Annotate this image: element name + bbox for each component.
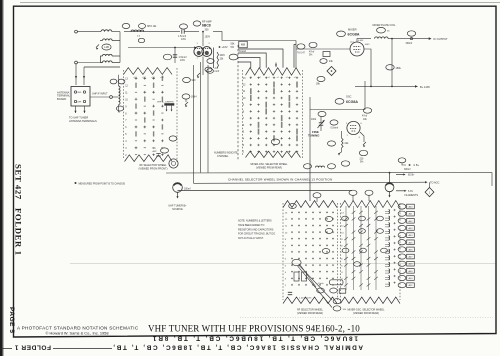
svg-text:0.5mmf: 0.5mmf: [331, 128, 339, 130]
svg-text:NOT ACTUALLY EXIST.: NOT ACTUALLY EXIST.: [238, 237, 264, 240]
svg-text:15k: 15k: [220, 58, 225, 60]
svg-text:300mf: 300mf: [404, 169, 411, 171]
svg-text:150V: 150V: [205, 36, 211, 39]
oval inside wheel lower: [169, 136, 177, 141]
svg-text:47mf: 47mf: [362, 116, 367, 118]
oval inside wheel2: [271, 139, 279, 145]
osc interconnect wires: [309, 97, 311, 160]
svg-text:11: 11: [341, 226, 344, 228]
svg-text:18UA6C, CB, T, TB, 18UB6C, CB,: 18UA6C, CB, T, TB, 18UB6C, CB, T, TB, 8R…: [151, 335, 358, 342]
bottom cluster ovals: [317, 288, 325, 293]
svg-text:NO.: NO.: [153, 148, 157, 150]
svg-text:6CG8A: 6CG8A: [348, 32, 360, 36]
row of parts above lower wheel: [304, 164, 312, 169]
oval osc top right: [363, 108, 371, 113]
svg-text:12: 12: [243, 85, 246, 87]
IF OUTPUT arrow: [429, 37, 432, 40]
svg-text:MIXER: MIXER: [348, 28, 357, 32]
svg-text:10k: 10k: [343, 309, 347, 311]
svg-text:220: 220: [360, 159, 365, 161]
svg-text:mmf: mmf: [215, 70, 220, 73]
svg-text:36: 36: [387, 31, 390, 33]
wheel contact matrix: [135, 77, 138, 80]
svg-text:43k: 43k: [329, 61, 334, 63]
coil L2 choke: [131, 30, 144, 32]
wire plate up: [202, 32, 204, 46]
svg-text:5: 5: [125, 134, 127, 136]
svg-text:82 B+: 82 B+: [408, 174, 415, 177]
svg-text:M8: M8: [241, 43, 245, 47]
ground at L1B: [96, 45, 99, 48]
svg-text:CHANNEL: CHANNEL: [217, 155, 229, 158]
svg-text:1.5mmf 10%: 1.5mmf 10%: [299, 298, 311, 300]
oval small left: [138, 38, 144, 42]
oscillator switch verticals: [345, 206, 347, 290]
long bus wire 1: [166, 173, 492, 187]
svg-text:6: 6: [361, 123, 363, 125]
bullet +10V: [219, 46, 221, 48]
tube V2B oscillator: [347, 121, 360, 134]
svg-text:2: 2: [125, 155, 127, 157]
wire coupling verticals: [101, 56, 103, 63]
svg-text:9: 9: [285, 239, 287, 241]
svg-text:3: 3: [243, 145, 245, 147]
svg-text:100V: 100V: [220, 55, 226, 57]
svg-text:180k: 180k: [396, 67, 402, 70]
svg-text:100V: 100V: [365, 44, 371, 46]
svg-text:+C: +C: [277, 77, 280, 79]
svg-text:RF SELECTOR WHEEL: RF SELECTOR WHEEL: [297, 309, 324, 312]
svg-text:NPO 10k: NPO 10k: [147, 26, 157, 28]
oval R resistor 39k: [317, 76, 325, 81]
UHF B+ test socket: [169, 159, 178, 168]
svg-text:RESISTORS AND CAPACITORS: RESISTORS AND CAPACITORS: [238, 228, 274, 231]
faint top page edge line: [20, 2, 500, 4]
svg-text:+C: +C: [259, 77, 262, 79]
svg-text:(VIEWED FROM REAR): (VIEWED FROM REAR): [256, 166, 282, 169]
oscillator channel coils: [389, 210, 390, 214]
svg-text:FILAMENTS: FILAMENTS: [405, 194, 419, 197]
svg-text:5%: 5%: [360, 162, 363, 164]
svg-text:MIXER-OSC. SELECTOR WHEEL: MIXER-OSC. SELECTOR WHEEL: [251, 163, 289, 166]
svg-text:13: 13: [243, 78, 246, 80]
wire plate supply vertical: [391, 39, 393, 87]
svg-text:FOLDER 1: FOLDER 1: [14, 344, 51, 351]
svg-text:5%: 5%: [309, 55, 312, 57]
svg-text:10: 10: [125, 99, 128, 101]
svg-text:A46: A46: [409, 248, 414, 251]
svg-text:4: 4: [243, 138, 245, 140]
svg-text:UHF TUNER B+: UHF TUNER B+: [168, 205, 187, 208]
oval R25 180k: [386, 65, 394, 70]
svg-text:10%: 10%: [180, 59, 186, 62]
oval C24: [407, 31, 415, 36]
svg-text:300mf: 300mf: [406, 42, 413, 45]
svg-text:MIXER PLATE COIL: MIXER PLATE COIL: [373, 24, 396, 27]
svg-text:5: 5: [243, 132, 245, 134]
svg-text:7: 7: [285, 252, 287, 254]
svg-text:10: 10: [243, 98, 246, 100]
svg-text:9: 9: [243, 105, 245, 107]
shield dashed line between sections: [237, 45, 239, 160]
box M2: [323, 52, 330, 57]
oval C17 label: [180, 24, 188, 29]
coil L1A primary: [101, 30, 112, 32]
B plus boost socket: [385, 183, 394, 192]
oval C14 with label: [122, 23, 130, 28]
svg-text:3: 3: [285, 279, 287, 281]
oval C28 220: [359, 150, 367, 155]
wire antenna bottom lead: [75, 61, 78, 64]
svg-text:A42: A42: [409, 220, 414, 223]
bottom cluster boxes: [294, 272, 299, 281]
svg-text:A41: A41: [409, 213, 414, 216]
oval L12: [377, 27, 386, 33]
svg-text:7A 0.47: 7A 0.47: [297, 52, 306, 55]
svg-text:TUNING: TUNING: [308, 134, 320, 138]
oval labels near L3: [110, 79, 117, 84]
svg-text:A43: A43: [409, 227, 414, 230]
svg-text:6: 6: [285, 259, 287, 261]
svg-text:IF OUTPUT: IF OUTPUT: [434, 37, 449, 41]
svg-text:11: 11: [243, 91, 246, 93]
svg-text:NOTE: NUMBERS & LETTERS: NOTE: NUMBERS & LETTERS: [238, 220, 272, 223]
svg-text:+C: +C: [268, 77, 271, 79]
svg-text:VHF TUNER WITH UHF PROVISIONS: VHF TUNER WITH UHF PROVISIONS 94E160-2, …: [148, 324, 360, 334]
svg-text:2: 2: [285, 285, 287, 287]
svg-text:3: 3: [359, 137, 361, 139]
antenna terminal board: [71, 87, 90, 107]
svg-text:A40: A40: [409, 206, 414, 209]
wire mixer cathode right: [364, 49, 371, 86]
oval grid resistor: [318, 111, 326, 116]
svg-text:9: 9: [125, 106, 127, 108]
lower RF wheel dots: [291, 211, 293, 213]
UHF B+ source cap socket: [173, 183, 183, 193]
wire mixer plate up to coil: [357, 39, 371, 42]
svg-text:SET 427 FOLDER 1: SET 427 FOLDER 1: [14, 164, 24, 256]
svg-text:6.3V: 6.3V: [408, 190, 413, 193]
svg-text:1N64: 1N64: [191, 97, 197, 99]
svg-text:100k: 100k: [311, 119, 317, 121]
svg-text:TO AGC: TO AGC: [430, 182, 440, 185]
svg-text:940: 940: [192, 79, 197, 82]
svg-text:8: 8: [125, 113, 127, 115]
svg-text:VHF B+ JUMPER: VHF B+ JUMPER: [157, 101, 174, 103]
svg-text:0.001: 0.001: [358, 40, 364, 42]
svg-text:(VIEWED FROM FRONT): (VIEWED FROM FRONT): [139, 168, 168, 171]
svg-text:10: 10: [341, 232, 344, 234]
oval C21 cluster: [297, 44, 305, 49]
svg-text:10%: 10%: [181, 38, 187, 41]
svg-text:① B+: ① B+: [413, 163, 420, 167]
svg-text:HAVE BEEN ADDED TO: HAVE BEEN ADDED TO: [238, 224, 264, 227]
RF selector wheel outline: [124, 68, 173, 75]
transformer label oval L1B: [102, 44, 111, 50]
svg-text:BOARD: BOARD: [57, 97, 66, 101]
svg-text:1: 1: [429, 191, 431, 195]
svg-text:A44: A44: [409, 234, 414, 237]
test point diamond A: [327, 67, 336, 76]
svg-text:39k: 39k: [316, 83, 321, 86]
faint horizontal fold line: [70, 263, 496, 265]
svg-text:MIXER-OSC. SELECTOR WHEEL: MIXER-OSC. SELECTOR WHEEL: [348, 309, 386, 312]
svg-text:11: 11: [285, 226, 288, 228]
faint dotted rule: [240, 317, 493, 319]
svg-text:6CG8A: 6CG8A: [346, 100, 358, 104]
switch contact slashes: [344, 217, 348, 220]
tube lower components: [207, 59, 214, 64]
svg-text:A49: A49: [409, 270, 414, 273]
coil L3 uhf input: [119, 86, 121, 105]
svg-text:VHF: VHF: [77, 92, 82, 94]
svg-text:A50: A50: [409, 277, 414, 280]
svg-text:0.5: 0.5: [137, 36, 141, 38]
svg-text:ADMIRAL CHASSIS 18A6C, CB, T,: ADMIRAL CHASSIS 18A6C, CB, T, TB, 18B6C,…: [112, 344, 363, 351]
svg-text:+C: +C: [286, 77, 289, 79]
page left fold edge: [0, 0, 3, 356]
wire L3 top: [118, 75, 120, 86]
svg-text:TO UHF TUNER: TO UHF TUNER: [69, 116, 88, 120]
osc cathode ground: [360, 132, 364, 142]
svg-text:6: 6: [125, 127, 127, 129]
tube V2A mixer: [350, 42, 364, 56]
oval feeds above sawtooth: [313, 193, 321, 198]
wire coil right bus: [119, 32, 121, 63]
coil L1B secondary: [103, 39, 113, 41]
wire down to antenna board left: [75, 64, 77, 85]
svg-text:2: 2: [341, 285, 343, 287]
diamond ref 1: [425, 188, 434, 197]
lower mixer-osc wheel outline: [341, 201, 401, 208]
svg-text:MEASURED FROM POINT B TO CHA: MEASURED FROM POINT B TO CHASSIS: [79, 182, 126, 185]
wire grid feed: [120, 31, 147, 33]
svg-text:© Howard W. Sams & Co., Inc. 1: © Howard W. Sams & Co., Inc. 1958: [46, 331, 109, 336]
svg-text:2: 2: [243, 152, 245, 154]
svg-text:12: 12: [125, 85, 128, 87]
coil L1D: [103, 61, 113, 63]
svg-text:ANTENNA TERMINALS: ANTENNA TERMINALS: [69, 119, 97, 123]
svg-text:7: 7: [243, 118, 245, 120]
filaments arrow: [396, 190, 405, 192]
svg-text:300: 300: [205, 29, 210, 32]
svg-text:+C: +C: [250, 77, 253, 79]
fold rule lines: [0, 348, 112, 350]
wire antenna top lead: [75, 30, 78, 33]
rotor oval with fan: [292, 259, 301, 265]
scattered ovals in osc wheel: [359, 216, 366, 221]
wheel2 top feed wires: [238, 62, 251, 68]
svg-text:13: 13: [285, 213, 288, 215]
svg-text:6: 6: [243, 125, 245, 127]
svg-text:SOURCE: SOURCE: [172, 208, 183, 211]
svg-text:8: 8: [285, 246, 287, 248]
oval R22 and resistor 22k: [328, 141, 336, 146]
vertical wires to lower bus: [193, 65, 195, 183]
oval with ground: [182, 94, 190, 99]
svg-text:9: 9: [341, 239, 343, 241]
svg-text:13: 13: [341, 213, 344, 215]
svg-text:UHF: UHF: [77, 102, 82, 104]
note measured from point: [75, 182, 77, 184]
ovals inside lower RF wheel: [325, 217, 333, 222]
arrow 82 B+: [396, 174, 404, 176]
svg-text:7: 7: [125, 120, 127, 122]
wire cathode bus: [128, 47, 196, 49]
svg-text:10k: 10k: [363, 119, 368, 121]
wire down to antenna board right: [83, 67, 85, 85]
svg-text:4: 4: [285, 272, 287, 274]
svg-text:6: 6: [341, 259, 343, 261]
left bottom ovals pair: [333, 299, 341, 304]
mixer-osc wheel outline: [246, 68, 301, 76]
svg-text:+10V: +10V: [222, 45, 228, 49]
svg-text:5: 5: [341, 265, 343, 267]
oval on lower wheel top edge: [289, 204, 297, 209]
right side arrows: [398, 158, 406, 163]
oval cathode components: [163, 54, 171, 60]
svg-text:11: 11: [125, 92, 128, 94]
svg-text:22k: 22k: [345, 142, 350, 145]
svg-text:ANT: ANT: [153, 150, 158, 153]
svg-text:6BC8: 6BC8: [202, 24, 211, 28]
svg-text:PAGE 5: PAGE 5: [8, 307, 15, 334]
svg-text:5%: 5%: [231, 46, 235, 49]
svg-text:10: 10: [285, 232, 288, 234]
long bus wire 2: [194, 182, 427, 183]
svg-text:2: 2: [209, 43, 211, 45]
oval L7: [229, 54, 238, 60]
svg-text:UHF IF INPUT: UHF IF INPUT: [92, 92, 108, 95]
fine tuning trimmer: [319, 123, 323, 125]
wire top bus to mixer: [213, 32, 296, 41]
wheel contact matrix 2: [250, 77, 252, 79]
coil L12: [375, 37, 389, 39]
svg-text:(VIEWED FROM REAR): (VIEWED FROM REAR): [353, 312, 379, 315]
svg-text:4: 4: [341, 272, 343, 274]
oval R24: [341, 161, 349, 166]
svg-text:3: 3: [125, 148, 127, 150]
svg-text:A52: A52: [409, 284, 414, 287]
svg-text:12: 12: [285, 219, 288, 221]
svg-text:A47: A47: [409, 256, 414, 259]
resistor 15k vertical: [217, 52, 219, 68]
svg-text:FOR CIRCUIT TRACING, BUT DO: FOR CIRCUIT TRACING, BUT DO: [238, 233, 275, 236]
svg-text:8: 8: [243, 111, 245, 113]
svg-text:4: 4: [125, 141, 127, 143]
svg-text:B+ 140V: B+ 140V: [420, 85, 430, 89]
svg-text:OSC: OSC: [346, 96, 352, 99]
wire mixer grid to wheel: [296, 48, 350, 50]
tube V1 RF amp (dual triode): [194, 47, 204, 57]
wire B+ 140V arrow: [355, 85, 418, 87]
wire L3 bottom: [119, 105, 121, 112]
svg-text:(VIEWED FROM REAR): (VIEWED FROM REAR): [297, 312, 323, 315]
channel strip stack ovals and boxes: [398, 204, 406, 209]
svg-text:A45: A45: [409, 241, 414, 244]
svg-text:NUMBERS INDICATE: NUMBERS INDICATE: [214, 152, 238, 155]
svg-text:3-band: 3-band: [239, 50, 247, 53]
svg-text:47mf: 47mf: [309, 52, 314, 54]
svg-text:CHANNEL SELECTOR WHEEL SHOWN: CHANNEL SELECTOR WHEEL SHOWN IN CHANNEL …: [228, 178, 332, 182]
oval R 940: [183, 77, 191, 82]
svg-text:1: 1: [347, 135, 349, 137]
svg-text:1: 1: [197, 43, 199, 45]
capacitor C17 series: [182, 29, 184, 33]
box M8 3-band: [239, 41, 248, 48]
coil L1C: [103, 54, 113, 56]
label RF AMP 6BC8: [193, 21, 201, 26]
oval C30: [330, 120, 338, 125]
svg-text:13: 13: [125, 79, 128, 81]
wire uhf if input: [90, 96, 110, 98]
svg-text:7: 7: [197, 58, 199, 60]
svg-text:5: 5: [285, 265, 287, 267]
svg-text:4.5mh: 4.5mh: [318, 283, 325, 285]
svg-text:8: 8: [341, 246, 343, 248]
svg-text:RF SELECTOR WHEEL: RF SELECTOR WHEEL: [139, 164, 167, 167]
lower RF wheel outline: [283, 201, 337, 208]
wires below board with arrows: [75, 106, 77, 113]
svg-text:L1B: L1B: [104, 45, 109, 49]
long bus wire 3: [178, 190, 353, 192]
